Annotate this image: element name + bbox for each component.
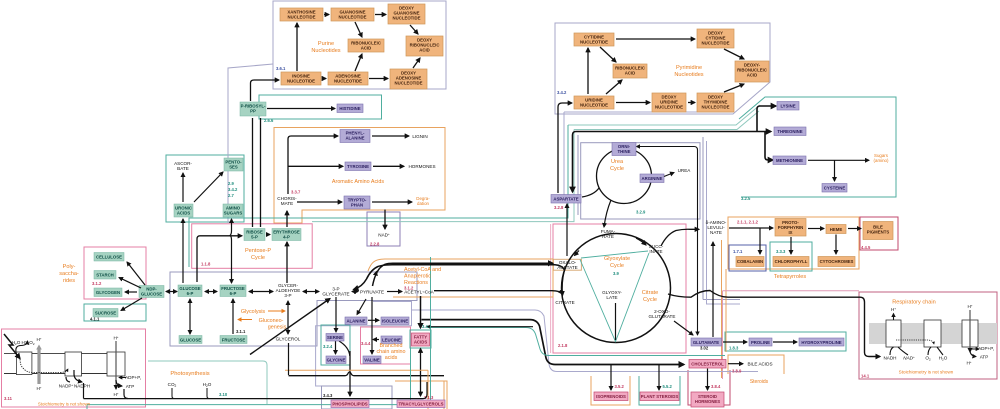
wire: glyceraldehyde 3Pglycerate xyxy=(303,291,319,293)
svg-text:1.1.8: 1.1.8 xyxy=(201,262,211,267)
container: aromatic amino acids orange box xyxy=(274,128,445,224)
wire: adenosine to RNA xyxy=(355,54,362,71)
svg-text:3.4.1: 3.4.1 xyxy=(422,324,432,329)
node URIDINE NUCLEOTIDE xyxy=(574,96,614,109)
wire: acetyl-CoA to citrate xyxy=(434,291,563,294)
svg-text:Stoichiometry is not shown: Stoichiometry is not shown xyxy=(38,402,91,407)
node PLANT STEROIDS xyxy=(640,392,679,401)
node PROTO-PORPHYRIN IX xyxy=(775,219,806,237)
wire: H+ through ATP synthase (photo) xyxy=(115,341,117,389)
wire: xanthosine to guanosine xyxy=(324,14,329,16)
wire: erythrose to chorismate xyxy=(286,211,288,227)
glyoxylate teal triangle xyxy=(580,251,649,342)
svg-text:ALANINE: ALANINE xyxy=(346,319,365,324)
wire: ramp mid arrowhead xyxy=(376,272,377,276)
node CHOLESTEROL xyxy=(689,360,726,369)
wire: bundle lavender down xyxy=(707,141,741,304)
container: oxaloacetate tan box xyxy=(553,259,581,270)
node BILE PIGMENTS xyxy=(863,222,893,240)
svg-text:ASPARTATE: ASPARTATE xyxy=(553,197,578,202)
wire: guanosine to RNA xyxy=(355,22,362,37)
svg-text:Degra-dation: Degra-dation xyxy=(416,196,430,206)
svg-text:4.1.1: 4.1.1 xyxy=(90,317,100,322)
svg-text:3.4.3: 3.4.3 xyxy=(323,393,333,398)
container: histidine teal box xyxy=(259,95,382,119)
wire: 2-oxoglutarate to glutamate xyxy=(674,321,693,335)
node DEOXY ADENOSINE NUCLEOTIDE xyxy=(390,69,427,89)
wire: electron dotted path (resp) xyxy=(896,340,934,344)
wire: amino-acid black bus to lysine/threonine/methionine xyxy=(573,132,772,193)
ATP synthase (photo) xyxy=(107,352,125,376)
node ARGININE xyxy=(640,174,664,183)
svg-text:3.8.4: 3.8.4 xyxy=(711,384,721,389)
wire: fatty acids feeder from acetyl-CoA xyxy=(420,296,422,328)
wire: ADP into synthase xyxy=(119,377,126,379)
wire: gray line left of urea xyxy=(577,135,579,215)
node ISOLEUCINE xyxy=(381,317,409,325)
container: glycolysis gray box xyxy=(170,272,417,346)
wire: valine line to leucine xyxy=(373,339,379,341)
svg-text:14.1: 14.1 xyxy=(861,374,870,379)
svg-text:PHOSPHOLIPIDS: PHOSPHOLIPIDS xyxy=(332,402,367,407)
node DEOXY-RIBONUCLEIC ACID (pyrimidine) xyxy=(735,61,769,82)
wire: NADH bus citrate to respiratory chain xyxy=(668,291,880,357)
svg-text:SUCC-INATE: SUCC-INATE xyxy=(649,244,664,254)
node SUCROSE xyxy=(93,309,118,318)
wire: mitochondrial pink arm to respiratory box xyxy=(723,291,860,379)
svg-text:2.2.8: 2.2.8 xyxy=(370,242,380,247)
node CYTIDINE NUCLEOTIDE xyxy=(574,33,614,46)
wire: glycerol up xyxy=(287,301,289,334)
wire: plant steroids dropper xyxy=(658,365,660,391)
wire: teal fatty container to bottom xyxy=(87,257,431,409)
container: isoprenoids orange box xyxy=(591,376,630,405)
node FRUCTOSE xyxy=(220,336,247,344)
node VALINE xyxy=(363,356,381,364)
container: fatty acids teal box xyxy=(410,330,431,348)
container: uronic/amino sugars teal box xyxy=(166,155,244,222)
wire: serine feeder xyxy=(335,297,337,332)
svg-text:AMINOSUGARS: AMINOSUGARS xyxy=(224,206,243,216)
wire: pyruvate to alanine xyxy=(357,299,366,315)
wire: fructose up xyxy=(232,299,234,334)
complex III/IV xyxy=(924,320,941,347)
wire: NADH fork xyxy=(890,347,908,355)
node DEOXY URIDINE NUCLEOTIDE xyxy=(652,93,686,112)
wire: circle arrow into succinate xyxy=(636,238,646,245)
node DEOXY CYTIDINE NUCLEOTIDE xyxy=(697,29,734,48)
node PROLINE xyxy=(749,338,772,346)
svg-text:3.2.5: 3.2.5 xyxy=(741,196,751,201)
wire: circle arrow into oxaloacetate xyxy=(575,251,580,256)
node STEROID HORMONES xyxy=(691,392,724,407)
wire: inosine to xanthosine xyxy=(296,23,298,71)
svg-text:CITRATE: CITRATE xyxy=(555,300,574,305)
wire: ornithine feeder from bundle xyxy=(637,147,698,332)
wire: 3Pglycerate pyruvate xyxy=(352,291,358,293)
wire: ribose to erythrose xyxy=(266,234,270,236)
node PHOSPHOLIPIDS xyxy=(331,400,369,408)
node URONIC ACIDS xyxy=(174,204,193,217)
svg-text:STEROIDHORMONES: STEROIDHORMONES xyxy=(695,394,720,404)
protein complex 1 (photosystem II) xyxy=(16,352,32,375)
svg-text:HEME: HEME xyxy=(830,227,843,232)
node METHIONINE xyxy=(773,156,806,165)
node ERYTHROSE 4-P xyxy=(272,229,301,241)
wire: orange container line over lipid area xyxy=(285,370,444,409)
wire: cholesterol to steroid hormones xyxy=(707,369,709,391)
wire: chorismate to tyrosine xyxy=(288,165,343,167)
wire: ATP out (photo) xyxy=(116,380,122,386)
node GLYCOGEN xyxy=(94,288,122,297)
svg-text:4.4.5: 4.4.5 xyxy=(861,245,871,250)
node SERINE xyxy=(326,334,344,342)
container: tetrapyrroles orange box xyxy=(728,217,859,269)
node GLYCINE xyxy=(326,356,346,364)
svg-text:Photosynthesis: Photosynthesis xyxy=(170,371,209,377)
wire: glucose-6-P to ribose-5-P elbow xyxy=(197,236,242,282)
wire: uronic acids to ascorbate xyxy=(182,173,184,202)
node STARCH xyxy=(94,271,116,280)
svg-text:3.2.8: 3.2.8 xyxy=(554,205,564,210)
wire: deoxyuridine to deoxythymidine xyxy=(688,102,695,104)
wire: oxaloacetate to aspartate xyxy=(566,204,568,256)
svg-text:HYDROXYPROLINE: HYDROXYPROLINE xyxy=(801,340,841,345)
node GLUCOSE xyxy=(179,336,202,344)
svg-text:3.5.2: 3.5.2 xyxy=(615,384,625,389)
node HEME xyxy=(826,225,846,234)
wire: serine diagonal to lipid line xyxy=(339,341,350,356)
citrate cycle circle xyxy=(562,234,671,343)
node HYDROXYPROLINE xyxy=(799,338,844,346)
svg-text:FATTYACIDS: FATTYACIDS xyxy=(414,334,428,344)
node RIBOSE 5-P xyxy=(244,229,265,241)
wire: pyruvate to acetyl-CoA xyxy=(387,291,402,293)
svg-text:3.9: 3.9 xyxy=(613,271,619,276)
wire: photosynthate to 3-P-glycerate diagonal xyxy=(250,299,330,355)
svg-text:3.1.1: 3.1.1 xyxy=(236,329,246,334)
svg-text:3.2.4: 3.2.4 xyxy=(323,344,333,349)
wire: black thick S-bus acetyl/fatty to cholesterol xyxy=(422,320,685,365)
svg-text:NADH: NADH xyxy=(883,356,896,361)
wire: aspartate to urea circle xyxy=(582,188,599,197)
svg-text:NADP+: NADP+ xyxy=(59,383,74,389)
wire: methionine dropper xyxy=(765,132,773,161)
wire: deoxycytidine to DNA xyxy=(724,49,744,59)
svg-text:3.2.9: 3.2.9 xyxy=(636,210,646,215)
wire: bundle orange pair down xyxy=(722,240,727,378)
node ALANINE xyxy=(345,317,367,325)
svg-text:3.1.2: 3.1.2 xyxy=(92,281,102,286)
svg-text:HORMONES: HORMONES xyxy=(408,164,435,169)
svg-text:GUANOSINENUCLEOTIDE: GUANOSINENUCLEOTIDE xyxy=(339,10,367,20)
wire: fructose-6-P to erythrose xyxy=(286,242,288,283)
wire: branch to cobalamin xyxy=(759,228,761,254)
svg-text:5.5.2: 5.5.2 xyxy=(663,384,673,389)
svg-text:BILE ACIDS: BILE ACIDS xyxy=(747,362,772,367)
svg-text:ORNI-THINE: ORNI-THINE xyxy=(618,144,631,154)
wire: water split arrow xyxy=(16,341,28,352)
svg-text:PYRUVATE: PYRUVATE xyxy=(360,290,384,295)
container: branched-chain lavender box xyxy=(316,302,412,387)
container: serine/glycine teal box xyxy=(321,325,350,365)
wire: fructose6P glyceraldehyde xyxy=(249,291,273,293)
wire: alanine to isoleucine xyxy=(368,319,379,321)
svg-text:PLANT STEROIDS: PLANT STEROIDS xyxy=(641,394,679,399)
svg-text:CELLULOSE: CELLULOSE xyxy=(96,255,122,260)
node ASPARTATE xyxy=(551,195,581,204)
wire: uridine to deoxyuridine xyxy=(616,102,650,104)
container: chlorophyll teal box xyxy=(770,242,812,271)
node CHLOROPHYLL xyxy=(773,257,809,267)
wire: isoprenoids dropper xyxy=(610,365,612,391)
photosynthesis membrane band xyxy=(4,354,125,374)
svg-text:PyrimidineNucleotides: PyrimidineNucleotides xyxy=(674,65,703,78)
container: acetyl-CoA orange region xyxy=(368,259,553,297)
container: cobalamin navy box xyxy=(729,245,766,271)
node THREONINE xyxy=(774,127,806,136)
node GLUCOSE 6-P xyxy=(178,285,202,297)
wire: teal S-bus to proline box xyxy=(431,328,726,356)
wire: NDP-glucose to cellulose xyxy=(127,262,145,285)
wire: succinate to d-aminolevulinate xyxy=(661,229,699,246)
wire: lavender line under pyrimidine box xyxy=(564,111,733,113)
wire: uridine to RNA xyxy=(606,80,622,94)
wire: aspartate to uridine xyxy=(558,103,572,193)
svg-text:1.8.3: 1.8.3 xyxy=(729,346,739,351)
wire: cytidine to RNA xyxy=(600,47,616,62)
container: NAD purple box xyxy=(367,212,400,246)
svg-text:3.10: 3.10 xyxy=(219,392,228,397)
respiratory membrane band xyxy=(869,323,997,344)
svg-text:CYSTEINE: CYSTEINE xyxy=(824,186,846,191)
ATP synthase (resp) xyxy=(962,320,978,347)
svg-text:CHLOROPHYLL: CHLOROPHYLL xyxy=(775,259,808,264)
wire: cholesterol to bile acids xyxy=(728,363,743,365)
protein complex 2 (cytochrome b6f / PSI) xyxy=(65,352,82,376)
svg-text:UREA: UREA xyxy=(678,168,692,173)
svg-text:OXALO-ACETATE: OXALO-ACETATE xyxy=(557,260,578,270)
svg-text:Tetrapyrroles: Tetrapyrroles xyxy=(774,274,807,280)
svg-text:PROLINE: PROLINE xyxy=(751,340,770,345)
wire: cytidine to deoxycytidine xyxy=(616,38,695,40)
wire: deoxyadenosine to DNA xyxy=(413,58,420,68)
svg-text:NADPH: NADPH xyxy=(74,384,90,389)
svg-text:Respiratory chain: Respiratory chain xyxy=(892,300,936,306)
container: citrate cycle pink box xyxy=(553,224,686,353)
svg-text:CYTOCHROMES: CYTOCHROMES xyxy=(820,259,854,264)
svg-text:3.3.3: 3.3.3 xyxy=(776,249,786,254)
wire: inosine to adenosine xyxy=(322,78,326,80)
node ISOPRENOIDS xyxy=(594,392,628,401)
container: sucrose teal box xyxy=(84,304,146,321)
wire: lysine riser xyxy=(757,106,776,132)
container: branched chain amino acids pink box xyxy=(361,327,411,364)
container: photosynthesis pink box xyxy=(2,329,146,407)
wire: heme to bile pigments xyxy=(848,228,861,230)
wire: CO2/H2O baseline xyxy=(84,382,428,399)
wire: P-ribosyl-PP riser pair xyxy=(253,118,261,227)
node ADENOSINE NUCLEOTIDE xyxy=(328,72,368,85)
wire: glyoxylate label stem xyxy=(615,303,617,340)
wire: teal second line rightward xyxy=(574,111,759,130)
svg-text:2.1.1, 2.1.2: 2.1.1, 2.1.2 xyxy=(737,220,759,225)
wire: oxaloacetate to citrate arc xyxy=(562,271,564,296)
wire: teal sucrose link xyxy=(148,361,267,404)
svg-text:GLUTAMATE: GLUTAMATE xyxy=(693,340,719,345)
container: Purine Nucleotides box xyxy=(273,1,446,89)
container: phospholipids purple box xyxy=(322,386,393,409)
wire: NDP-glucose to glucose-6-P xyxy=(166,291,177,293)
svg-text:LIGNIN: LIGNIN xyxy=(412,134,427,139)
wire: deoxyguanosine to DNA xyxy=(410,25,418,34)
svg-text:TYROSINE: TYROSINE xyxy=(347,164,369,169)
wire: protoporphyrin to heme xyxy=(808,228,824,230)
node TRIACYLGLYCEROLS xyxy=(397,400,445,408)
node GLUTAMATE xyxy=(691,338,722,346)
wire: glucose-6-P to uronic acids xyxy=(182,219,184,283)
wire: O2 H2O forks xyxy=(928,347,943,355)
svg-text:3.3.7: 3.3.7 xyxy=(291,190,301,195)
node TYROSINE xyxy=(345,162,371,171)
svg-text:SERINE: SERINE xyxy=(327,335,343,340)
wire: pyruvate to valine feeder xyxy=(371,297,373,354)
svg-text:SUCROSE: SUCROSE xyxy=(95,311,116,316)
wire: NDP-glucose to glycogen xyxy=(125,291,137,293)
wire: ADP arrow (resp) xyxy=(970,348,979,350)
svg-text:GLYCINE: GLYCINE xyxy=(327,358,346,363)
node AMINO SUGARS xyxy=(223,204,243,217)
wire: NDP-glucose to sucrose xyxy=(121,298,142,311)
node XANTHOSINE NUCLEOTIDE xyxy=(280,8,323,21)
container: pentose-P cycle pink box xyxy=(192,224,313,268)
wire: phospholipids dropper xyxy=(349,351,351,396)
wire: chorismate riser xyxy=(288,136,338,194)
svg-text:FRUCTOSE: FRUCTOSE xyxy=(222,337,246,342)
label: Gluconeogenesis arrow xyxy=(238,319,252,321)
svg-text:ISOPRENOIDS: ISOPRENOIDS xyxy=(596,394,626,399)
node COBALAMIN xyxy=(736,257,764,267)
svg-text:STARCH: STARCH xyxy=(96,273,114,278)
svg-text:ARGININE: ARGININE xyxy=(641,176,662,181)
container: steroid hormones pink box xyxy=(688,370,730,405)
node CYSTEINE xyxy=(822,184,847,193)
svg-text:COBALAMIN: COBALAMIN xyxy=(737,259,763,264)
svg-text:ATP: ATP xyxy=(126,384,135,389)
wire: uridine to cytidine xyxy=(587,48,589,94)
svg-text:HISTIDINE: HISTIDINE xyxy=(339,106,360,111)
wire: protoporphyrin to chlorophyll xyxy=(790,237,792,254)
svg-text:XANTHOSINENUCLEOTIDE: XANTHOSINENUCLEOTIDE xyxy=(287,10,315,20)
svg-text:ATP: ATP xyxy=(980,355,989,360)
wire: teal container second line xyxy=(312,130,574,222)
svg-text:Stoichiometry is not shown: Stoichiometry is not shown xyxy=(899,370,954,375)
svg-text:3.1.2: 3.1.2 xyxy=(404,286,414,291)
wire: purine box link down-left xyxy=(228,64,273,223)
wire: H2O tick xyxy=(207,388,209,399)
svg-text:GLUCOSE: GLUCOSE xyxy=(180,337,201,342)
wire: ATP arrow (resp) xyxy=(970,350,976,357)
node INOSINE NUCLEOTIDE xyxy=(281,72,321,85)
wire: lipid bottom bus with hop xyxy=(289,372,445,376)
wire: gluconeogenesis ramp to 3-P-glycerate xyxy=(354,265,565,290)
wire: H+ through ATP synthase (resp) xyxy=(969,310,971,352)
wire: serine to glycine xyxy=(335,341,337,354)
node CYTOCHROMES xyxy=(818,257,855,267)
wire: teal container around urea left side xyxy=(189,125,568,267)
complex I xyxy=(886,320,901,347)
wire: bundle gray down right of urea xyxy=(703,137,740,300)
wire: chorismate to tryptophan xyxy=(297,201,342,203)
container: Pyrimidine Nucleotides box xyxy=(555,23,770,114)
svg-text:UreaCycle: UreaCycle xyxy=(610,159,624,172)
svg-text:FUMA-RATE: FUMA-RATE xyxy=(601,229,616,239)
proton pump gray bar xyxy=(37,349,40,384)
node PENTOSES xyxy=(224,158,243,171)
svg-text:PHENYL-ALANINE: PHENYL-ALANINE xyxy=(345,131,365,141)
container: bile acids orange box xyxy=(728,355,784,374)
wire: glucose6P fructose6P xyxy=(205,291,217,293)
wire: tryptophan to NAD xyxy=(384,210,386,230)
svg-text:Steroids: Steroids xyxy=(750,379,769,385)
svg-text:Aromatic Amino Acids: Aromatic Amino Acids xyxy=(332,179,384,185)
node CELLULOSE xyxy=(94,253,124,262)
wire: tyrosine to hormones xyxy=(373,165,404,167)
container: bile pigments pink box xyxy=(860,217,898,250)
svg-text:LEUCINE: LEUCINE xyxy=(382,338,401,343)
wire: lavender S-bus lower xyxy=(411,310,758,372)
svg-text:LYSINE: LYSINE xyxy=(780,104,795,109)
svg-text:THREONINE: THREONINE xyxy=(777,129,802,134)
light bolt xyxy=(4,334,20,359)
wire: NADP to NADPH fork xyxy=(66,370,82,382)
node LYSINE xyxy=(777,102,799,111)
wire: P-ribosyl-PP to inosine xyxy=(251,80,280,101)
svg-text:3.6.1: 3.6.1 xyxy=(276,66,286,71)
wire: methionine to sugars xyxy=(808,159,869,161)
svg-text:3.11: 3.11 xyxy=(4,396,13,401)
wire: electron dotted path xyxy=(20,359,68,373)
wire: tryptophan to degradation xyxy=(372,201,412,203)
node FATTY ACIDS xyxy=(412,333,430,346)
wire: adenosine to deoxyadenosine xyxy=(369,78,388,80)
svg-text:Glycolysis: Glycolysis xyxy=(241,309,266,315)
wire: NDP-glucose to starch xyxy=(119,278,141,289)
wire: methionine branch to cysteine xyxy=(834,160,836,181)
svg-text:CYTIDINENUCLEOTIDE: CYTIDINENUCLEOTIDE xyxy=(580,35,608,45)
wire: guanosine to deoxyguanosine xyxy=(375,14,386,16)
wire: CO2 tick xyxy=(172,388,174,399)
container: inner teal line under pyrimidine xyxy=(568,105,760,125)
svg-text:3.4.4: 3.4.4 xyxy=(361,341,371,346)
wire: heme to cytochromes xyxy=(835,235,837,255)
wire: arginine to urea xyxy=(664,173,674,177)
svg-text:3.02: 3.02 xyxy=(700,346,709,351)
container: polysaccharides pink box xyxy=(84,247,146,299)
wire: NADPH to baseline xyxy=(83,383,85,399)
wire: glucose up xyxy=(189,299,191,334)
svg-text:3.4.2: 3.4.2 xyxy=(557,90,567,95)
svg-text:ISOLEUCINE: ISOLEUCINE xyxy=(382,319,408,324)
wire: glutamate to proline xyxy=(723,341,747,343)
svg-text:GLYCOGEN: GLYCOGEN xyxy=(96,290,120,295)
node FRUCTOSE 6-P xyxy=(220,285,246,297)
svg-text:2.1.8: 2.1.8 xyxy=(558,343,568,348)
container: top-right amino acid teal box xyxy=(739,97,896,197)
wire: phenylalanine to lignin xyxy=(372,135,409,137)
wire: ATP to baseline corner xyxy=(124,389,128,399)
container: respiratory chain pink box xyxy=(859,292,997,379)
